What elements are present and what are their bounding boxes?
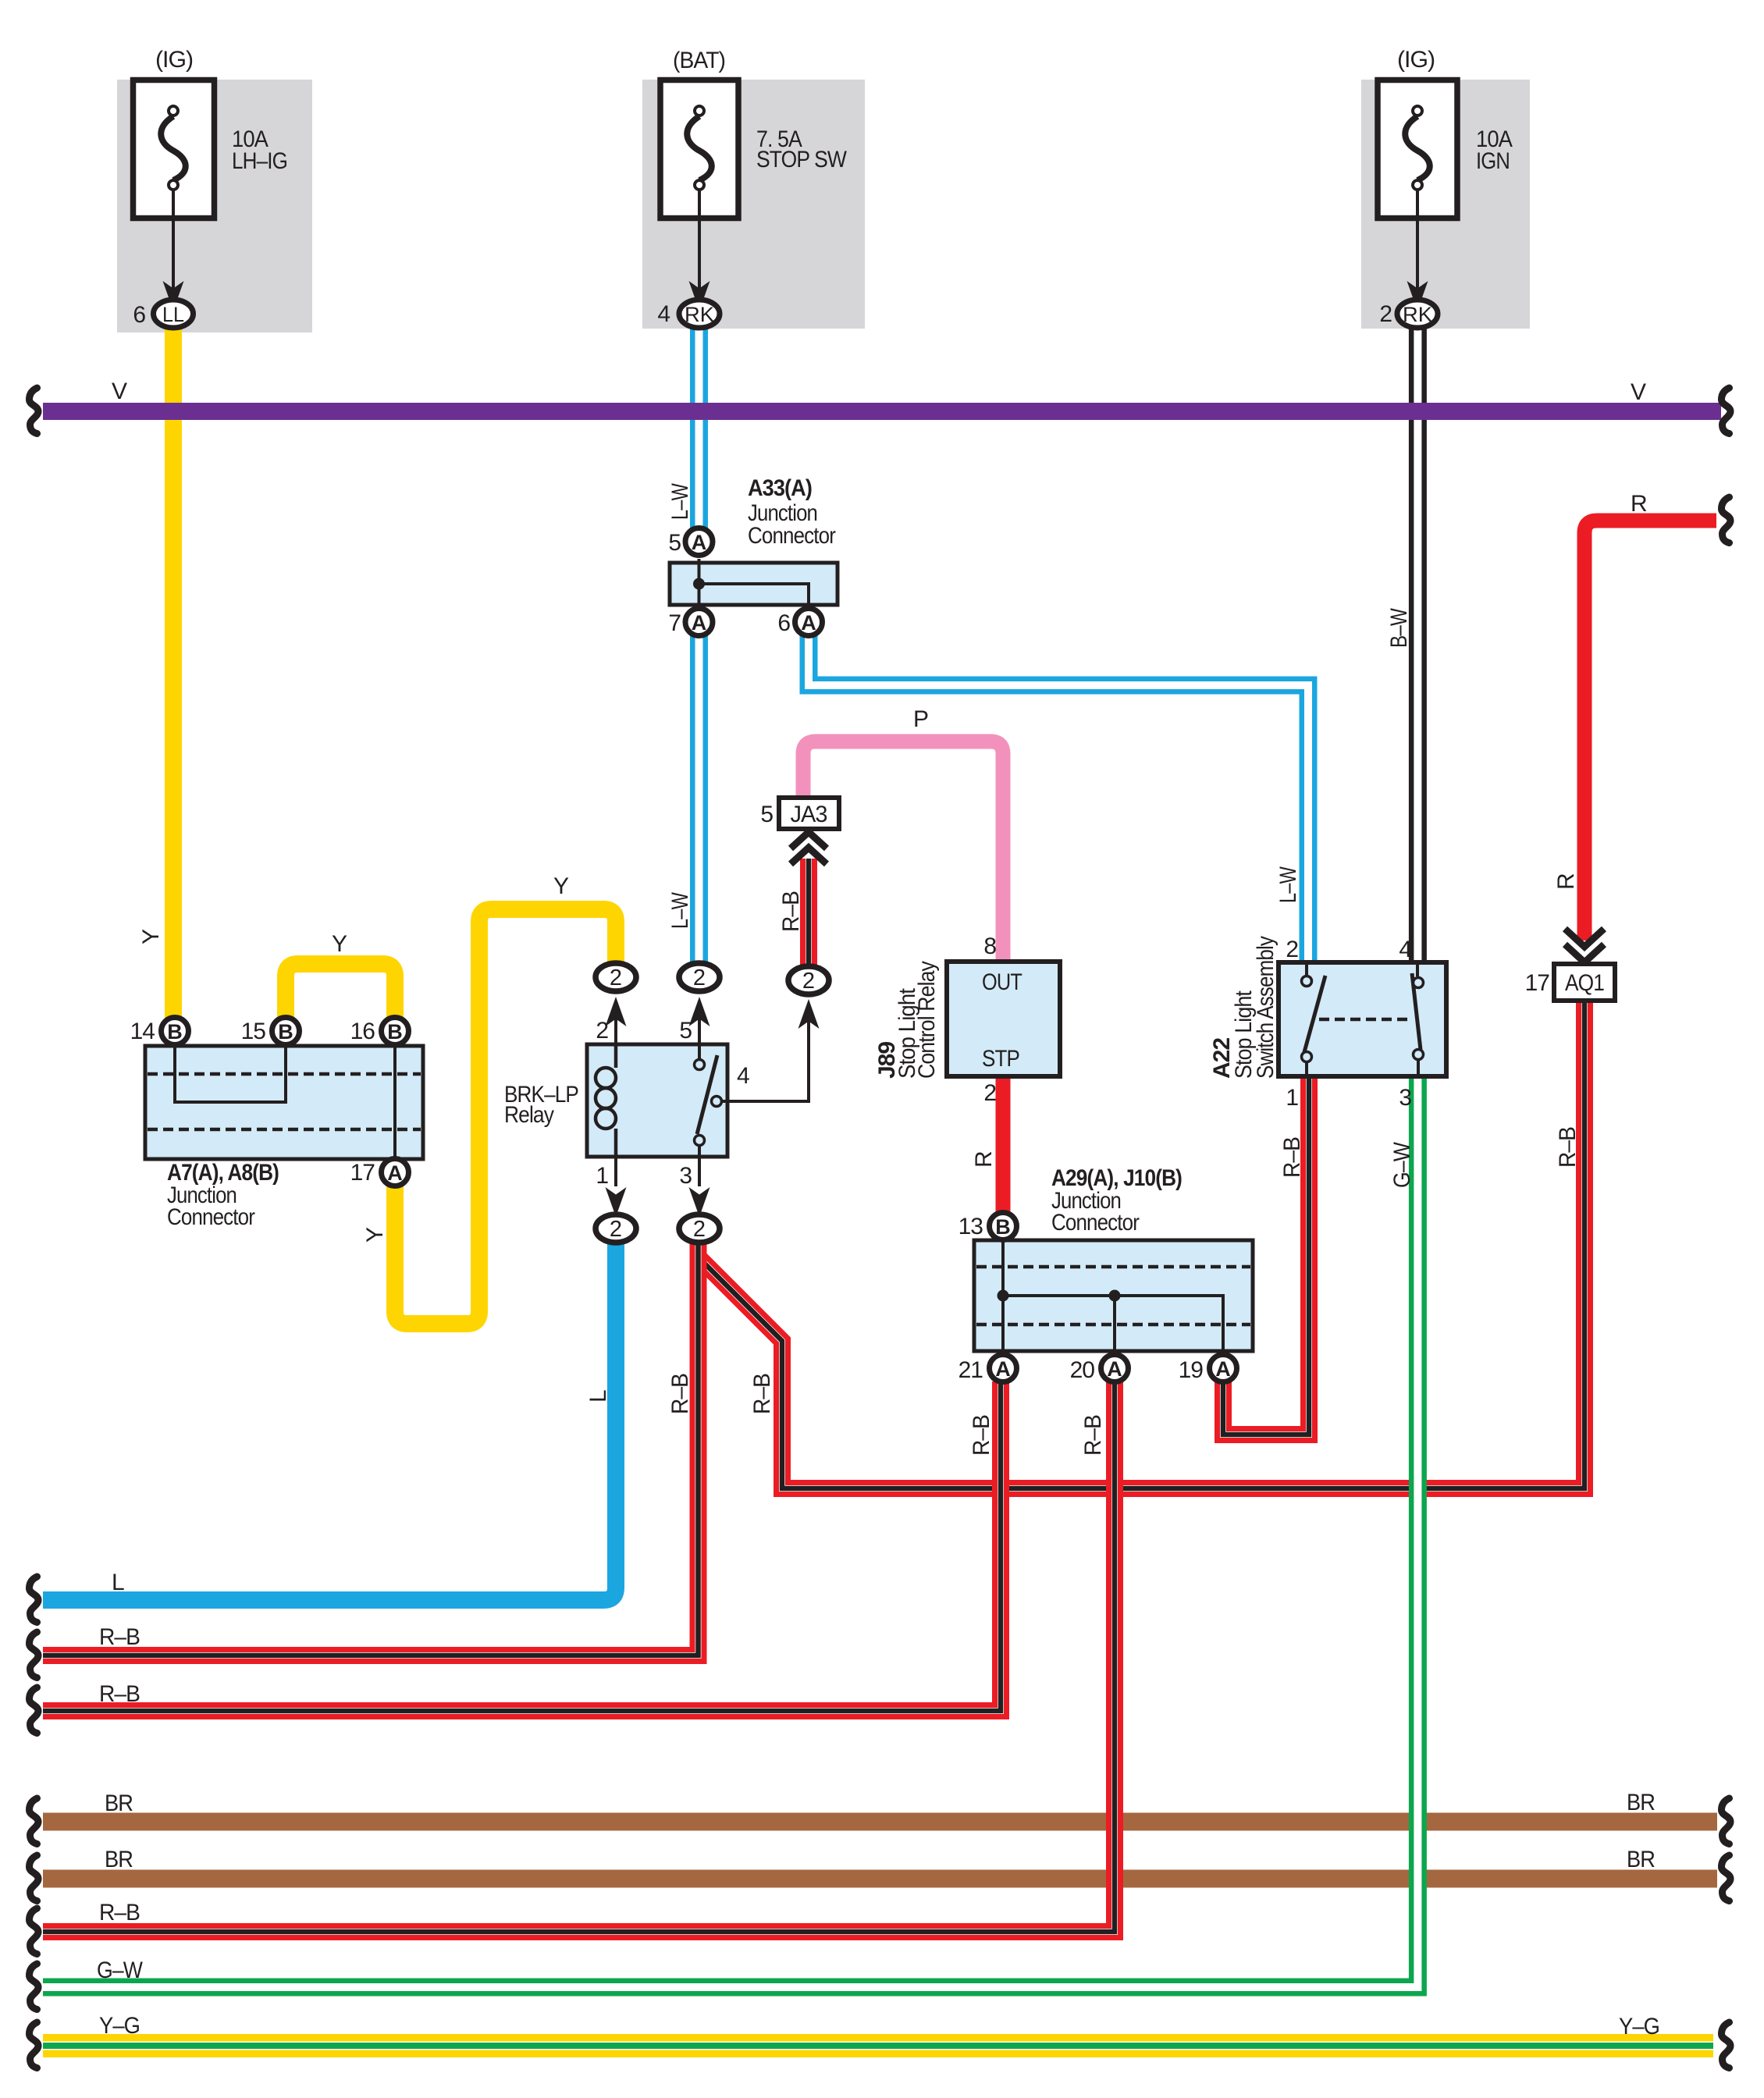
svg-text:BR: BR: [1627, 1790, 1655, 1815]
svg-text:2: 2: [1286, 937, 1298, 962]
svg-text:A: A: [1107, 1357, 1122, 1381]
A7/A8 internal wiring: [175, 1047, 286, 1102]
svg-text:L–W: L–W: [1275, 866, 1301, 903]
svg-text:Control Relay: Control Relay: [914, 961, 940, 1079]
relay pin 5 lead: [698, 1015, 701, 1044]
svg-text:R: R: [1553, 873, 1579, 890]
svg-text:5: 5: [760, 802, 773, 827]
svg-text:R–B: R–B: [99, 1900, 140, 1926]
wire from fuse to pin 4: [698, 190, 701, 298]
svg-text:B–W: B–W: [1386, 608, 1412, 648]
wire from fuse to pin 6: [172, 190, 175, 298]
svg-text:2: 2: [1379, 301, 1392, 327]
svg-text:LH–IG: LH–IG: [232, 148, 287, 174]
svg-text:3: 3: [679, 1163, 692, 1189]
svg-text:R–B: R–B: [1080, 1415, 1106, 1456]
wire Y jumper 15B to 16B: [286, 964, 395, 1019]
svg-text:P: P: [913, 706, 928, 732]
svg-text:1: 1: [596, 1163, 608, 1189]
svg-text:A: A: [801, 611, 816, 635]
svg-text:4: 4: [657, 301, 670, 327]
fuse element: [1405, 116, 1430, 180]
wire L blue bottom bus to relay pin 1: [43, 1241, 616, 1600]
connector oval 2 RK: [1397, 300, 1438, 328]
A7/A8 body: [145, 1046, 423, 1159]
A29 body: [974, 1240, 1253, 1351]
svg-text:STOP SW: STOP SW: [756, 147, 847, 172]
A29 dashed rows: [976, 1265, 1250, 1269]
A29 pin 21 A: [990, 1355, 1017, 1382]
svg-text:17: 17: [350, 1160, 375, 1186]
wire L-W pair from A33 pin 6 right and down to A22 pin 2: [809, 634, 1308, 965]
connector oval 4 RK: [679, 300, 720, 328]
svg-text:2: 2: [693, 1217, 706, 1242]
svg-text:R–B: R–B: [1279, 1137, 1305, 1178]
svg-text:L: L: [112, 1570, 124, 1595]
svg-text:L–W: L–W: [667, 483, 693, 520]
svg-text:2: 2: [693, 965, 706, 990]
svg-text:R–B: R–B: [778, 891, 804, 932]
svg-text:R: R: [971, 1151, 997, 1168]
svg-text:R–B: R–B: [667, 1374, 693, 1414]
svg-text:Y: Y: [138, 929, 164, 944]
A22 dashed link: [1319, 1018, 1411, 1022]
relay pin 4 wire to oval: [722, 1012, 809, 1101]
relay oval pin3 bottom: [679, 1214, 720, 1243]
svg-text:(BAT): (BAT): [673, 48, 725, 73]
relay switch: [698, 1044, 701, 1059]
svg-text:A: A: [1215, 1357, 1231, 1381]
A7/A8 pin 16 B: [382, 1018, 409, 1045]
svg-text:STP: STP: [982, 1046, 1019, 1072]
svg-text:2: 2: [610, 1217, 622, 1242]
wire R-B branch relay pin3 diagonal to AQ1 via bottom: [699, 1001, 1584, 1488]
fuse 10A IGN body: [1378, 80, 1457, 219]
A22 left switch: [1305, 965, 1308, 975]
relay pin 2 lead: [614, 1015, 617, 1044]
svg-text:(IG): (IG): [155, 47, 193, 73]
svg-text:OUT: OUT: [982, 969, 1022, 995]
A7/A8 pin 14 B: [162, 1018, 189, 1045]
svg-text:A: A: [995, 1357, 1011, 1381]
relay oval pin1 bottom: [596, 1214, 636, 1243]
svg-text:Y: Y: [362, 1227, 388, 1243]
svg-text:R–B: R–B: [969, 1415, 994, 1456]
svg-text:3: 3: [1399, 1085, 1411, 1111]
fuse 7.5A STOP SW body: [660, 80, 738, 219]
svg-text:Switch Assembly: Switch Assembly: [1253, 936, 1279, 1079]
wire P from JA3 to J89 pin 8: [803, 741, 1003, 963]
svg-text:R–B: R–B: [99, 1624, 140, 1650]
svg-text:14: 14: [130, 1019, 155, 1044]
svg-text:Relay: Relay: [504, 1102, 554, 1128]
relay pin 1 lead: [614, 1157, 617, 1186]
svg-text:Connector: Connector: [167, 1204, 255, 1230]
svg-text:4: 4: [1399, 937, 1411, 962]
svg-text:16: 16: [350, 1019, 375, 1044]
wire R-B bus 3 to A29 pin 20: [43, 1381, 1115, 1932]
svg-text:BR: BR: [105, 1790, 133, 1816]
A7/A8 pin 17 A: [382, 1159, 409, 1186]
arrow into pin4 oval: [798, 999, 820, 1029]
double chevron arrow into JA3: [791, 832, 827, 864]
wire Y-G bus: [43, 2034, 1713, 2057]
grey panel left fuse: [117, 80, 312, 332]
wire R from right break to AQ1: [1584, 521, 1716, 941]
wire L-W pair from A33 pin 7 down to relay pin 5 oval: [690, 634, 708, 966]
fuse element: [161, 116, 186, 180]
svg-text:G–W: G–W: [1389, 1142, 1415, 1188]
svg-text:21: 21: [958, 1357, 983, 1383]
grey panel middle fuse: [642, 80, 865, 329]
svg-text:4: 4: [737, 1063, 749, 1089]
svg-text:L–W: L–W: [667, 892, 693, 929]
wire G-W bus to A22 pin 3: [43, 1076, 1417, 1987]
svg-text:B: B: [167, 1020, 183, 1044]
wire L-W pair from STOP SW fuse 4 RK down to A33 pin 5: [690, 329, 708, 531]
svg-text:8: 8: [983, 933, 996, 959]
relay coil: [614, 1044, 618, 1068]
svg-text:B: B: [278, 1020, 293, 1044]
A7/A8 dashed rows: [148, 1072, 421, 1076]
relay oval pin5 top: [679, 963, 720, 991]
A33 pin 7 A: [685, 609, 713, 636]
svg-text:RK: RK: [1403, 303, 1432, 326]
fuse 10A LH-IG body: [133, 80, 215, 219]
svg-text:1: 1: [1286, 1085, 1298, 1111]
svg-text:2: 2: [596, 1018, 608, 1044]
wire R-B from JA3 chevrons down to oval 2: [800, 859, 817, 968]
connector oval 6 LL: [154, 300, 194, 328]
A29 internal wiring: [1001, 1242, 1005, 1350]
svg-text:V: V: [1631, 379, 1646, 405]
svg-text:B: B: [387, 1020, 403, 1044]
svg-text:A: A: [692, 611, 707, 635]
svg-text:Connector: Connector: [748, 523, 836, 549]
wire B-W pair from IGN fuse 2 RK down to A22 pin 4: [1409, 329, 1427, 964]
svg-text:R: R: [1631, 491, 1647, 517]
svg-text:LL: LL: [162, 303, 184, 326]
svg-text:B: B: [995, 1215, 1011, 1239]
svg-text:2: 2: [802, 969, 815, 994]
grey panel right fuse: [1361, 80, 1530, 329]
svg-text:Y–G: Y–G: [99, 2013, 140, 2039]
svg-text:BR: BR: [1627, 1847, 1655, 1872]
wire BR bus 2: [43, 1870, 1717, 1888]
svg-text:RK: RK: [685, 303, 714, 326]
wire Y from 17A down around to BRK-LP relay pin 2: [395, 909, 616, 1324]
svg-text:JA3: JA3: [791, 802, 827, 827]
svg-text:5: 5: [679, 1018, 692, 1044]
svg-text:R–B: R–B: [749, 1374, 775, 1414]
double chevron arrow into AQ1: [1565, 929, 1604, 962]
svg-text:19: 19: [1179, 1357, 1204, 1383]
relay body: [587, 1044, 727, 1157]
svg-text:A33(A): A33(A): [748, 475, 812, 501]
svg-text:2: 2: [983, 1080, 996, 1106]
A33 pin 6 A: [795, 609, 823, 636]
svg-text:(IG): (IG): [1397, 47, 1435, 73]
JA3 body: [779, 798, 839, 829]
AQ1 body: [1554, 964, 1615, 1001]
svg-text:A: A: [692, 531, 707, 554]
wire R-B bus 1 to relay pin 3: [43, 1241, 699, 1655]
A22 body: [1279, 962, 1446, 1076]
svg-text:IGN: IGN: [1476, 148, 1510, 174]
svg-text:2: 2: [610, 965, 622, 990]
svg-text:Connector: Connector: [1051, 1210, 1140, 1236]
A29 pin 13 B: [990, 1213, 1017, 1240]
A22 right switch: [1416, 965, 1419, 976]
svg-text:6: 6: [133, 302, 145, 328]
A33 pin 5 A: [685, 528, 713, 556]
wire R from J89 STP to A29 pin 13: [996, 1076, 1011, 1212]
A29 pin 20 A: [1101, 1355, 1129, 1382]
A33 body: [670, 563, 838, 605]
J89 body: [947, 962, 1060, 1076]
svg-text:L: L: [585, 1390, 611, 1403]
svg-text:G–W: G–W: [97, 1958, 143, 1983]
bus V: [43, 403, 1721, 420]
svg-text:13: 13: [958, 1214, 983, 1239]
svg-text:AQ1: AQ1: [1565, 970, 1604, 996]
svg-text:BR: BR: [105, 1847, 133, 1872]
wire R-B from A22 pin 1 to A29 pin 19: [1223, 1076, 1309, 1435]
A33 internal wiring: [699, 559, 809, 608]
svg-text:R–B: R–B: [99, 1681, 140, 1707]
svg-text:Y: Y: [332, 931, 347, 957]
A7/A8 pin 15 B: [272, 1018, 300, 1045]
svg-text:A: A: [387, 1161, 403, 1185]
relay pin 3 lead: [698, 1157, 701, 1186]
svg-text:R–B: R–B: [1555, 1127, 1581, 1168]
relay oval pin4: [788, 966, 829, 994]
svg-text:17: 17: [1525, 970, 1550, 996]
fuse element: [687, 116, 712, 180]
svg-text:6: 6: [777, 610, 790, 636]
svg-text:15: 15: [241, 1019, 266, 1044]
svg-text:20: 20: [1070, 1357, 1095, 1383]
relay oval pin2 top: [596, 963, 636, 991]
wire Y from fuse LH-IG pin 6 LL down to 14B: [165, 329, 182, 1019]
svg-text:Y–G: Y–G: [1619, 2014, 1659, 2039]
svg-text:7: 7: [668, 610, 681, 636]
svg-text:Y: Y: [553, 873, 569, 899]
svg-text:V: V: [112, 379, 127, 404]
wire R-B bus 2 to A29 pin 21: [43, 1381, 1001, 1711]
svg-text:5: 5: [668, 530, 681, 556]
A29 pin 19 A: [1210, 1355, 1237, 1382]
wire from fuse to pin 2: [1416, 190, 1419, 298]
wire BR bus 1: [43, 1813, 1717, 1831]
